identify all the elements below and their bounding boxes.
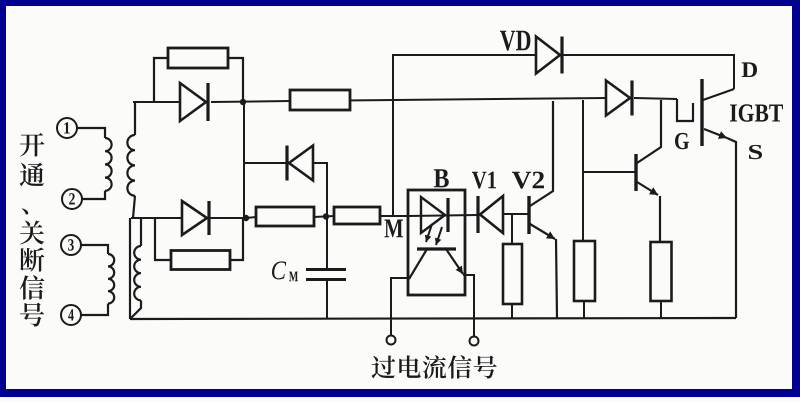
node A junction bbox=[240, 99, 246, 105]
label V1 bbox=[472, 172, 486, 189]
label B bbox=[434, 169, 449, 187]
label VD bbox=[500, 31, 515, 51]
resistor R4 bbox=[334, 207, 380, 224]
transistor V2 emitter arrow bbox=[530, 224, 555, 239]
optocoupler phototransistor bbox=[417, 247, 456, 250]
wire IGBT source to bottom rail bbox=[727, 138, 736, 318]
wire main rail left bbox=[290, 98, 606, 101]
transistor V3 base bar bbox=[634, 154, 637, 191]
resistor R6 bbox=[290, 90, 350, 110]
wire node A down to node B bbox=[243, 102, 245, 218]
resistor R8 bbox=[651, 242, 672, 301]
wire node M through block B to V1 bbox=[408, 215, 477, 216]
transistor V3 emitter arrow bbox=[637, 182, 658, 195]
wire VD cathode to IGBT drain bbox=[562, 55, 734, 89]
label D bbox=[742, 62, 757, 77]
wire secondary S2 bottom bbox=[131, 300, 141, 318]
diode VD3 bbox=[182, 201, 207, 235]
transistor V2 base bar bbox=[527, 196, 530, 234]
overcurrent output terminal 2 bbox=[470, 337, 479, 346]
wire node M up to diode VD bbox=[393, 55, 536, 216]
wire bottom rail bbox=[130, 318, 736, 319]
terminal circle 1 bbox=[57, 118, 77, 138]
text 号 bbox=[20, 303, 44, 327]
wire terminal1 to winding bbox=[77, 128, 106, 138]
diode VD1 bbox=[180, 83, 206, 121]
diode VD2 bbox=[285, 146, 288, 181]
wire terminal3 to winding bbox=[81, 245, 109, 254]
wire V1 to V2 base bbox=[503, 213, 529, 215]
wire secondary S1 bottom bbox=[133, 196, 135, 218]
wire secondary S2 top bbox=[140, 218, 142, 246]
wire VD1 cathode to node A bbox=[211, 101, 290, 102]
optocoupler LED bbox=[421, 197, 445, 233]
wire V3 emitter to resistor R8 bbox=[659, 196, 661, 242]
wire phototransistor emitter to terminal bbox=[463, 275, 474, 337]
node C junction bbox=[323, 213, 329, 219]
resistor R7 bbox=[574, 241, 595, 301]
optocoupler arrow 2 bbox=[436, 227, 442, 245]
resistor R3 bbox=[256, 207, 314, 226]
wire V2 emitter to bottom rail bbox=[556, 239, 557, 318]
wire to resistor R5 bbox=[511, 214, 513, 244]
text 过 bbox=[372, 356, 396, 379]
label CM bbox=[272, 261, 286, 279]
transformer secondary winding S2 bbox=[134, 246, 141, 300]
optocoupler arrow 1 bbox=[426, 224, 432, 242]
text 通 bbox=[20, 163, 45, 187]
wire resistor R1 right leg bbox=[228, 58, 243, 102]
wire V2 collector bbox=[530, 101, 553, 206]
phototransistor emitter arrow bbox=[446, 249, 463, 274]
label G bbox=[675, 133, 689, 149]
terminal circle 2 bbox=[62, 189, 82, 209]
wire to transistor V3 base bbox=[583, 171, 636, 173]
wire to diode VD2 bbox=[244, 162, 286, 164]
capacitor CM plates bbox=[306, 268, 346, 271]
label node M bbox=[384, 220, 403, 238]
text 关 bbox=[20, 220, 44, 244]
terminal circle 4 bbox=[61, 305, 81, 325]
wire resistor R7 to bottom rail bbox=[583, 301, 585, 318]
wire resistor R4 to node M bbox=[380, 215, 408, 217]
wire resistor R2 right leg bbox=[230, 218, 243, 260]
wire resistor R3 to node C bbox=[314, 216, 334, 217]
text 断 bbox=[20, 247, 44, 271]
wire winding to terminal2 bbox=[82, 191, 106, 199]
wire resistor R1 left leg bbox=[154, 58, 168, 102]
diode VD4 bbox=[606, 81, 630, 116]
diode V1 bbox=[476, 196, 479, 233]
label IGBT bbox=[730, 104, 737, 121]
text 信 bbox=[20, 275, 45, 299]
optocoupler block B outline bbox=[408, 190, 465, 295]
transformer primary winding P1 bbox=[105, 138, 112, 191]
IGBT body bar bbox=[700, 79, 703, 146]
IGBT source arrow bbox=[704, 129, 727, 138]
wire resistor R5 to bottom rail bbox=[511, 304, 513, 318]
label S bbox=[749, 145, 762, 159]
wire rail down to resistor R7 bbox=[582, 100, 584, 241]
wire winding to terminal4 bbox=[81, 304, 109, 315]
text 电 bbox=[399, 355, 420, 378]
wire left vertical to bottom rail bbox=[129, 218, 131, 319]
label V2 bbox=[512, 172, 531, 189]
text 号 bbox=[474, 356, 497, 379]
wire to diode VD1 bbox=[133, 101, 180, 103]
wire IGBT drain lead bbox=[703, 89, 734, 100]
overcurrent output terminal 1 bbox=[387, 336, 396, 345]
wire resistor R2 left leg bbox=[155, 218, 171, 260]
wire V3 collector to rail bbox=[637, 100, 661, 163]
wire IGBT gate lead bbox=[677, 99, 693, 121]
wire node B to resistor R3 bbox=[246, 217, 256, 218]
wire secondary S1 top bbox=[134, 102, 136, 135]
transformer secondary winding S1 bbox=[127, 135, 135, 196]
wire VD4 cathode to gate bbox=[634, 98, 677, 99]
terminal circle 3 bbox=[61, 235, 81, 255]
wire VD2 anode down to node C bbox=[313, 163, 327, 217]
wire phototransistor collector to terminal bbox=[391, 278, 409, 336]
transformer primary winding P2 bbox=[108, 254, 114, 304]
wire resistor R8 to bottom rail bbox=[660, 301, 662, 318]
wire to diode VD3 bbox=[131, 217, 182, 219]
diode VD bbox=[536, 37, 560, 74]
resistor R5 bbox=[503, 244, 522, 304]
border frame bbox=[0, 0, 800, 6]
text 开 bbox=[20, 133, 44, 157]
wire node C to capacitor CM bbox=[326, 217, 328, 268]
text 、 bbox=[22, 208, 28, 214]
text 流 bbox=[423, 355, 446, 378]
wire VD3 cathode to node B bbox=[209, 217, 246, 219]
text 信 bbox=[448, 355, 472, 378]
node B junction bbox=[243, 215, 249, 221]
resistor R2 bbox=[171, 251, 230, 270]
resistor R1 bbox=[168, 48, 228, 68]
wire capacitor CM to bottom rail bbox=[326, 281, 328, 319]
